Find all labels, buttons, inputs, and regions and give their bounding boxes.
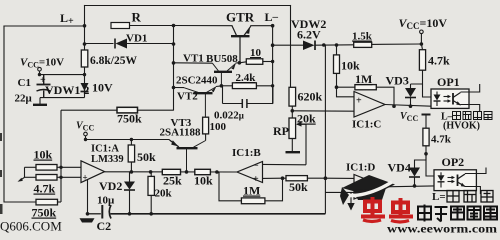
svg-text:2.4k: 2.4k xyxy=(236,72,257,84)
wire vertical bus x84 xyxy=(84,6,86,51)
wire jog to IC1:D plus input xyxy=(325,191,354,193)
svg-text:RP: RP xyxy=(273,124,289,138)
wire left vertical bus xyxy=(3,26,5,202)
wire GTR emitter to L- xyxy=(251,25,273,27)
svg-text:LM339: LM339 xyxy=(91,154,124,165)
wire R output to x173 xyxy=(130,25,174,27)
op-amp IC1:C xyxy=(354,92,385,118)
svg-text:OP2: OP2 xyxy=(442,155,465,169)
svg-text:VCC=10V: VCC=10V xyxy=(399,16,448,31)
svg-text:VD2: VD2 xyxy=(99,179,122,193)
svg-text:10k: 10k xyxy=(34,148,53,162)
svg-text:+: + xyxy=(356,96,362,107)
svg-text:IC1:A: IC1:A xyxy=(91,144,119,155)
svg-text:VD4: VD4 xyxy=(388,161,411,175)
wire 4.7k to OP2 led xyxy=(426,154,434,176)
svg-text:4.7k: 4.7k xyxy=(34,182,56,196)
svg-text:4.7k: 4.7k xyxy=(431,134,452,146)
wires OP2 outputs xyxy=(465,168,486,195)
svg-text:(HVOK): (HVOK) xyxy=(443,121,480,132)
potentiometer RP 20k xyxy=(289,111,296,152)
svg-text:Q606.COM: Q606.COM xyxy=(0,219,62,234)
resistor 750k lower xyxy=(4,199,61,205)
resistor 20k vertical xyxy=(148,172,154,214)
diode VD2 xyxy=(124,172,135,214)
resistor 10k upper right xyxy=(334,45,340,87)
resistor 10 xyxy=(239,59,272,65)
wire VT2 collector to x173 xyxy=(174,87,185,89)
wire x61 vertical sense node xyxy=(60,110,62,202)
wire bottom rail xyxy=(111,213,326,215)
svg-text:620k: 620k xyxy=(298,90,323,104)
svg-text:10k: 10k xyxy=(341,59,360,73)
svg-text:R: R xyxy=(132,10,142,25)
resistor 4.7k lower right xyxy=(422,115,431,154)
svg-text:BU508: BU508 xyxy=(206,53,238,65)
svg-text:0.022μ: 0.022μ xyxy=(214,110,244,122)
wire VT1 collector to x173 xyxy=(174,62,213,64)
svg-text:10μ: 10μ xyxy=(97,195,115,207)
stub with arrow below IC1:D input xyxy=(347,192,354,210)
resistor 1.5k xyxy=(354,42,422,47)
svg-text:IC1:B: IC1:B xyxy=(232,147,261,159)
resistor 1M right xyxy=(337,85,395,107)
resistor 25k xyxy=(162,169,180,174)
svg-text:2SA1188: 2SA1188 xyxy=(160,127,201,139)
watermark text dianzi xiazaizhan fake glyphs xyxy=(418,205,497,222)
resistor 50k vertical xyxy=(128,140,134,172)
resistor R xyxy=(111,23,130,29)
wire L- vertical xyxy=(272,26,274,104)
svg-text:IC1:D: IC1:D xyxy=(346,162,375,174)
wire RP wiper to IC1:B minus xyxy=(298,124,307,165)
transistor VT2 2SC2440 xyxy=(184,87,216,118)
wire VT1 emitter to GTR base node xyxy=(236,62,240,64)
watermark bug char 1 xyxy=(361,197,385,222)
wire IC1:C plus input corner xyxy=(337,87,355,97)
wire connector left of 10k/4.7k xyxy=(24,167,26,177)
node VCC mid terminal xyxy=(84,132,88,139)
svg-text:C2: C2 xyxy=(97,219,112,233)
wires OP1 outputs xyxy=(461,84,480,112)
arrow RP wiper xyxy=(296,122,302,127)
optocoupler OP2 xyxy=(434,170,476,191)
svg-text:VD3: VD3 xyxy=(386,74,409,88)
diode VD4 xyxy=(409,154,426,186)
fake hanzi guo gaoya xyxy=(447,191,493,203)
resistor 50k horizontal xyxy=(283,176,326,181)
zener VDW1 on loop right branch xyxy=(81,83,89,92)
resistor 4.7k left xyxy=(25,175,62,181)
transistor VT1 BU508 xyxy=(213,63,236,86)
svg-text:10k: 10k xyxy=(194,174,213,188)
transistor VT3 2SA1188 xyxy=(170,140,206,172)
svg-text:1.5k: 1.5k xyxy=(352,31,373,43)
op-amp IC1:A xyxy=(61,161,105,214)
wire IC1:D output xyxy=(385,185,434,188)
resistor 100 xyxy=(203,117,209,140)
wire VCC rail to VT3 emitter xyxy=(86,140,179,147)
svg-text:IC1:C: IC1:C xyxy=(352,119,381,131)
svg-text:750k: 750k xyxy=(117,112,142,126)
svg-text:VDW1 2: VDW1 2 xyxy=(45,83,89,97)
wire comparator A output line xyxy=(105,171,237,173)
svg-text:50k: 50k xyxy=(289,180,308,194)
label L- gaoya zhengchang xyxy=(441,112,454,123)
svg-text:C1: C1 xyxy=(18,77,31,89)
resistor 1M feedback B xyxy=(219,172,283,204)
wire IC1:C output xyxy=(385,105,431,107)
node VCC right terminal xyxy=(420,30,424,44)
wire VDW1 loop right xyxy=(84,75,86,98)
svg-text:VD1: VD1 xyxy=(126,33,147,45)
svg-text:20k: 20k xyxy=(297,112,316,126)
zener VDW2 xyxy=(273,41,354,51)
resistor 6.8k/25W xyxy=(81,50,88,75)
watermark L=guo gaoya xyxy=(432,191,446,203)
svg-text:10: 10 xyxy=(250,47,262,59)
capacitor C1 xyxy=(37,75,51,98)
svg-text:22μ: 22μ xyxy=(15,93,33,105)
svg-text:50k: 50k xyxy=(137,150,156,164)
svg-text:6.2V: 6.2V xyxy=(297,28,321,42)
svg-text:−: − xyxy=(253,161,259,172)
diode VD1 xyxy=(85,39,174,49)
wire x325 long vertical xyxy=(324,45,326,214)
node VCC left terminal xyxy=(38,67,42,74)
wire top rail xyxy=(85,5,291,7)
wire x173 vertical xyxy=(173,26,175,111)
svg-text:6.8k/25W: 6.8k/25W xyxy=(90,55,137,67)
wire GTR collector from node xyxy=(174,25,233,27)
wire VDW1 loop top xyxy=(40,74,85,76)
capacitor C2 xyxy=(102,205,111,219)
optocoupler OP1 xyxy=(431,89,469,108)
svg-text:OP1: OP1 xyxy=(437,75,460,89)
svg-text:L–: L– xyxy=(265,10,279,24)
resistor 620k xyxy=(289,87,296,111)
svg-text:100: 100 xyxy=(210,121,227,133)
wire bottom rail left xyxy=(88,213,101,215)
svg-text:2SC2440: 2SC2440 xyxy=(176,75,218,87)
capacitor 0.022u xyxy=(223,86,273,108)
wire divider to IC1:C input xyxy=(292,110,354,112)
svg-text:VT1: VT1 xyxy=(183,53,204,65)
svg-text:1M: 1M xyxy=(243,184,260,198)
fake hanzi gaoya zhengchang xyxy=(453,112,493,120)
stub arrow at left node xyxy=(18,177,25,182)
diode VD3 xyxy=(405,84,416,106)
resistor 10k mid xyxy=(195,169,211,174)
resistor 4.7k upper right xyxy=(411,44,432,97)
svg-text:20k: 20k xyxy=(155,188,173,200)
svg-text:+: + xyxy=(83,173,88,183)
op-amp IC1:D xyxy=(325,175,385,200)
watermark bug char 2 xyxy=(389,198,413,222)
scan edge marks left border xyxy=(0,133,3,214)
svg-text:10V: 10V xyxy=(92,81,113,95)
svg-text:VT2: VT2 xyxy=(177,91,198,103)
wire VDW1 loop bottom xyxy=(40,97,85,99)
resistor 750k upper xyxy=(61,107,174,113)
svg-text:4.7k: 4.7k xyxy=(428,54,450,68)
transistor GTR xyxy=(231,26,251,63)
wire VT2 emitter to VT1 base node xyxy=(216,85,222,88)
svg-text:GTR: GTR xyxy=(226,10,255,25)
op-amp IC1:B pointing left xyxy=(237,162,306,183)
watermark mortarboard cap xyxy=(340,175,395,205)
svg-text:1M: 1M xyxy=(355,72,372,86)
svg-text:25k: 25k xyxy=(163,174,182,188)
ground below IC1:A xyxy=(80,218,95,222)
svg-text:VCC=10V: VCC=10V xyxy=(20,57,64,70)
ground below C1 xyxy=(33,98,47,105)
ground below RP xyxy=(286,151,301,153)
svg-text:L=: L= xyxy=(432,191,446,203)
resistor 2.4k xyxy=(221,83,272,89)
svg-text:www.eeworm.com: www.eeworm.com xyxy=(387,222,497,235)
wire top rail drop to 620k xyxy=(290,6,292,88)
resistor 10k left xyxy=(25,165,62,171)
wire L+ horizontal top-left xyxy=(4,25,85,27)
svg-text:750k: 750k xyxy=(32,206,57,220)
